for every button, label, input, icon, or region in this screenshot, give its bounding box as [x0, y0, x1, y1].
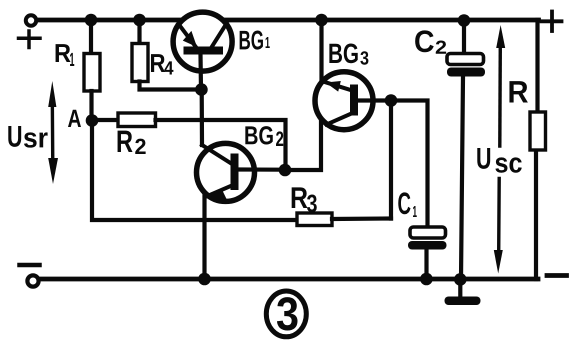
node A dot [86, 114, 99, 127]
transistor BG1 [173, 12, 232, 71]
node dot (C1 bottom rail) [420, 273, 433, 286]
transistor BG3 [315, 72, 387, 130]
BG2 emitter line [205, 185, 233, 197]
wire R bottom to bottom rail [534, 149, 538, 279]
minus sign bottom-right [547, 273, 567, 278]
label R3 [292, 187, 308, 208]
wire R1 bottom lead to node A [89, 91, 93, 120]
arrow Usr (double-headed) [48, 81, 58, 184]
BG2 base bar [231, 154, 239, 191]
wire top rail to BG3 emitter [319, 20, 323, 82]
figure number 3 (circled) [266, 291, 306, 337]
wire R4 top lead [137, 20, 141, 44]
wire BG3 base right to C1 [391, 101, 428, 228]
wire BG2 base node to BG3 collector [289, 119, 321, 170]
capacitor C2 [447, 21, 485, 280]
BG2 emitter arrow [209, 189, 227, 200]
label R4 [151, 54, 165, 72]
transistor BG2 [197, 143, 282, 201]
wire BG1 base lead down [198, 55, 203, 90]
resistor R4 [132, 44, 148, 82]
node dot (R4 top) [133, 14, 146, 27]
label C2 [415, 30, 434, 52]
wire R4 bottom lead to BG1 base node [140, 82, 202, 90]
BG1 emitter line [179, 24, 196, 47]
resistor R3 [297, 213, 332, 226]
wire top rail left segment [37, 18, 181, 23]
terminal bottom-left [27, 275, 38, 286]
plus sign top-left [19, 31, 41, 48]
arrow Usc (dimension arrows up and down) [494, 25, 505, 274]
wire node A down to bottom horizontal [92, 125, 297, 220]
wire top rail right segment [224, 18, 539, 23]
BG3 base bar [350, 85, 358, 116]
terminal top-left [26, 15, 36, 25]
BG3 base lead [358, 98, 387, 102]
wire right edge vertical (top rail corner down to R) [535, 20, 539, 114]
BG3 collector line [327, 113, 353, 125]
label Usr [8, 126, 21, 147]
label BG1 [240, 31, 263, 50]
node dot (C2 / ground on bottom rail) [454, 273, 467, 286]
wire BG2 emitter down to bottom rail [202, 195, 206, 279]
resistor R1 [84, 54, 100, 92]
BG1 emitter arrow [183, 31, 197, 47]
label R2 [118, 131, 133, 152]
node dot (C2 top rail) [458, 14, 471, 27]
label Usc [477, 148, 490, 169]
BG2 base lead [239, 167, 282, 171]
label R1 [56, 44, 71, 62]
ground [445, 281, 481, 305]
wire R3 right to BG3 base vertical [332, 216, 391, 221]
label BG3 [329, 43, 357, 63]
label A [68, 110, 81, 127]
node dot (R1 top) [85, 14, 98, 27]
node dot (BG3 emitter top rail) [315, 14, 328, 27]
label R [509, 81, 527, 102]
wire R1 top lead [89, 20, 93, 54]
BG3 emitter arrow [326, 81, 341, 92]
label C1 [398, 192, 410, 214]
label BG2 [245, 126, 272, 144]
wire bottom rail [40, 277, 538, 282]
capacitor C1 [408, 227, 447, 277]
BG1 base bar [184, 47, 224, 55]
node dot (BG1 base / R4) [195, 83, 208, 96]
minus sign bottom-left [20, 263, 40, 268]
BG3 emitter line [322, 81, 351, 90]
wire R2 to BG2 base corner [156, 120, 286, 167]
node dot (BG2 base) [279, 164, 292, 177]
node dot (BG2 emitter on bottom rail) [198, 273, 211, 286]
resistor R [530, 112, 546, 150]
node dot (BG3 base) [385, 94, 398, 107]
BG2 collector line [202, 145, 232, 164]
wire BG1 base node down to BG2 collector [200, 90, 205, 145]
resistor R2 [97, 118, 118, 122]
wire BG3 base down to R3 [389, 101, 393, 219]
plus sign top-right [542, 12, 562, 32]
BG1 collector line [212, 24, 227, 47]
